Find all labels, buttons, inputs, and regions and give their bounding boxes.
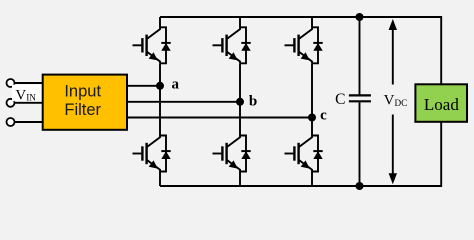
transistor Q2 — [133, 136, 161, 172]
wire: capacitor branch lower — [359, 102, 361, 186]
freewheeling diode D4 — [240, 136, 251, 172]
freewheeling diode D2 — [160, 136, 171, 172]
svg-text:b: b — [249, 94, 257, 110]
capacitor C — [349, 95, 371, 101]
freewheeling diode D3 — [240, 27, 251, 63]
junction: cap bottom — [356, 182, 364, 190]
input terminal 1 — [7, 79, 15, 87]
transistor Q5 — [285, 27, 313, 63]
svg-text:c: c — [320, 108, 327, 124]
wire: input 2 to filter — [15, 102, 43, 104]
freewheeling diode D1 — [160, 27, 171, 63]
wire: leg b upper stub — [239, 17, 241, 27]
wire: phase a from filter — [127, 85, 160, 87]
wire: input 1 to filter — [15, 82, 43, 84]
transistor Q3 — [213, 27, 241, 63]
transistor Q6 — [285, 136, 313, 172]
node c — [308, 108, 327, 124]
wire: leg c upper stub — [311, 17, 313, 27]
input filter block — [43, 75, 127, 130]
wire: leg a upper stub — [159, 17, 161, 27]
input terminal 2 — [7, 99, 15, 107]
junction: cap top — [356, 13, 364, 21]
VDC arrow (voltage annotation) — [389, 19, 397, 184]
label VIN — [12, 85, 42, 104]
svg-text:Filter: Filter — [64, 101, 101, 119]
transistor Q1 — [133, 27, 161, 63]
transistor Q4 — [213, 136, 241, 172]
wire: leg a midpoint — [159, 63, 161, 135]
wire: phase b from filter — [127, 101, 240, 103]
svg-text:Input: Input — [64, 82, 101, 100]
node b — [236, 94, 257, 110]
wire: leg a lower stub — [159, 172, 161, 187]
wire: capacitor branch upper — [359, 17, 361, 94]
wire: positive DC rail (top) — [160, 17, 441, 84]
wire: leg b lower stub — [239, 172, 241, 187]
freewheeling diode D6 — [312, 136, 323, 172]
wire: leg b midpoint — [239, 63, 241, 135]
wire: phase c from filter — [127, 117, 312, 119]
freewheeling diode D5 — [312, 27, 323, 63]
wire: leg c lower stub — [311, 172, 313, 187]
input terminal 3 — [7, 118, 15, 126]
svg-text:a: a — [172, 77, 180, 93]
node a — [156, 77, 180, 93]
load block — [415, 84, 467, 122]
svg-text:C: C — [335, 91, 345, 108]
svg-text:Load: Load — [424, 95, 459, 114]
wire: negative DC rail (bottom) — [160, 122, 441, 186]
wire: input 3 to filter — [15, 121, 43, 123]
wire: leg c midpoint — [311, 63, 313, 135]
